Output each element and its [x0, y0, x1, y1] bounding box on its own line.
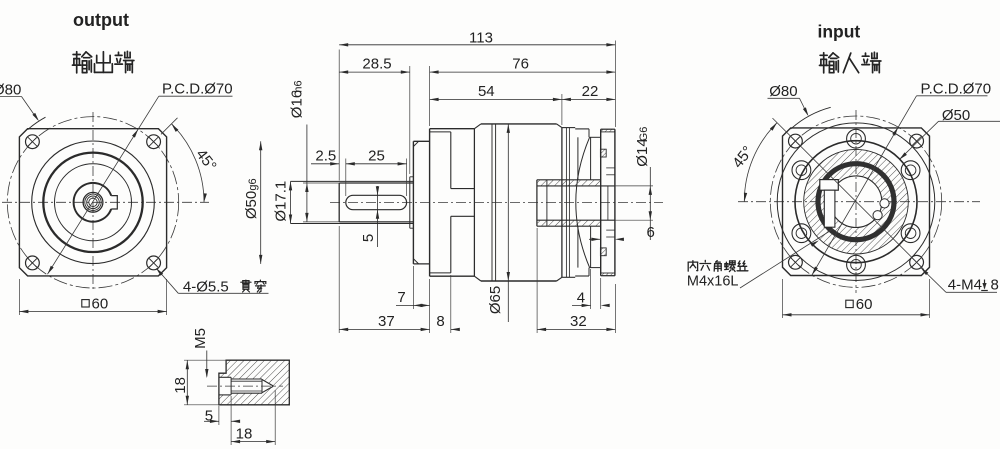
middle view dim dia50g6	[260, 141, 262, 264]
svg-text:60: 60	[92, 295, 109, 312]
svg-text:4-Ø5.5: 4-Ø5.5	[183, 278, 229, 295]
middle view clamp collar faces	[577, 137, 579, 180]
middle view dim 22	[562, 98, 616, 100]
svg-text:M4x16L: M4x16L	[687, 273, 739, 289]
left view 45 deg construction ray	[161, 118, 178, 135]
svg-text:P.C.D.Ø70: P.C.D.Ø70	[921, 80, 992, 97]
middle view clamp screws in section	[600, 149, 606, 157]
middle view shaft dia17.1 key surface lines	[291, 180, 414, 182]
middle view rear rim silhouette	[575, 128, 589, 130]
svg-text:25: 25	[368, 148, 385, 165]
middle view round flange projection curve	[576, 137, 590, 267]
middle view dim 5 keyway width	[377, 186, 379, 247]
middle view hollow input shaft with dia14 bore (sectioned)	[536, 180, 538, 226]
svg-text:7: 7	[397, 289, 405, 306]
svg-text:Ø50: Ø50	[243, 191, 260, 219]
svg-text:6: 6	[647, 224, 655, 241]
svg-text:Ø16: Ø16	[289, 90, 306, 118]
left view P.C.D. leader line with arrows	[48, 96, 159, 274]
detail view dim 5 counterbore depth	[218, 406, 220, 425]
svg-text:5: 5	[360, 234, 377, 242]
svg-text:4-M4: 4-M4	[948, 276, 982, 293]
svg-text:8: 8	[991, 276, 999, 293]
left view body circle dia 80 arc fragment	[28, 117, 46, 129]
middle view dim dia16h6	[306, 125, 308, 222]
right view horizontal centerline	[738, 201, 980, 203]
middle view dim 37	[338, 226, 340, 333]
right view title: Chinese 输入端	[820, 53, 839, 73]
middle view dim 6 plate thickness	[589, 238, 600, 240]
detail view M5 hole white cut	[219, 377, 231, 395]
left view recess circle (thick)	[43, 153, 142, 252]
middle view ring gear barrel dia 65	[474, 124, 481, 129]
svg-text:28.5: 28.5	[362, 56, 391, 73]
middle view carrier recess step	[409, 177, 411, 228]
middle view dim 76	[429, 66, 431, 126]
svg-text:Ø80: Ø80	[769, 83, 797, 100]
middle view square flange plate (8mm)	[429, 129, 431, 277]
left view 45 deg dimension arc	[172, 124, 205, 203]
left view horizontal centerline	[2, 201, 209, 203]
right view clamp outer circle	[804, 149, 909, 254]
detail view counterbore lines	[219, 376, 231, 378]
right view two small holes	[880, 199, 889, 208]
left view vertical centerline	[92, 112, 94, 291]
svg-text:76: 76	[512, 56, 529, 73]
left view square flange with chamfered corners	[19, 129, 166, 276]
svg-text:h6: h6	[293, 80, 305, 92]
svg-text:Ø17.1: Ø17.1	[272, 181, 289, 222]
right view P.C.D. bolt circle (dash-dot)	[770, 116, 941, 287]
detail view hatched block	[219, 360, 289, 405]
right view serrated clamp ring (thick)	[818, 164, 894, 240]
middle view dim 2.5 and 25 keyway	[345, 159, 347, 197]
right view 4 corner bolt holes with cross marks	[789, 134, 803, 148]
middle view dim 32	[536, 228, 538, 333]
right view clamp hatched annulus	[804, 149, 909, 254]
right view barrel circle dia 65	[777, 123, 935, 281]
middle view dim 28.5	[409, 66, 411, 174]
detail view drill cone tip	[262, 380, 274, 387]
svg-text:M5: M5	[192, 328, 209, 349]
svg-text:Ø14: Ø14	[634, 138, 651, 166]
middle view dim 4	[590, 269, 592, 309]
detail view dim 18 depth	[230, 425, 232, 445]
right view clamp screw M4 head and body	[820, 180, 839, 191]
left view P.C.D. bolt circle (dash-dot)	[7, 117, 178, 288]
right view body dia 80 arc fragment	[791, 107, 831, 129]
left view inner circle dia 31	[55, 164, 132, 241]
svg-text:4: 4	[577, 290, 585, 307]
svg-text:P.C.D.Ø70: P.C.D.Ø70	[162, 81, 233, 98]
svg-text:37: 37	[378, 313, 395, 330]
middle view dim 7	[412, 266, 414, 309]
svg-text:G6: G6	[638, 127, 650, 142]
left view boss circle dia 50g6	[32, 141, 155, 264]
right view P.C.D. leader with arrows	[812, 96, 917, 275]
svg-text:output: output	[73, 10, 129, 30]
svg-text:input: input	[818, 22, 861, 42]
svg-text:18: 18	[172, 377, 189, 394]
right view 6 flange holes	[901, 224, 920, 243]
right view vertical centerline	[855, 110, 857, 293]
middle view dim dia65	[507, 124, 509, 322]
svg-text:8: 8	[436, 313, 444, 330]
middle view dim dia17.1	[290, 181, 292, 223]
left view title: Chinese 输出端	[73, 52, 92, 73]
svg-text:g6: g6	[247, 178, 259, 190]
middle view output shaft dia16 outline	[338, 183, 340, 222]
detail view centerline	[207, 385, 283, 387]
svg-text:32: 32	[570, 313, 587, 330]
middle view dim 54	[561, 94, 563, 125]
left view keyway tab	[111, 196, 117, 209]
left view output shaft dia16 circle with keyway	[74, 183, 112, 222]
middle view barrel rear face	[561, 128, 563, 278]
right view label hex socket screws M4x16L with leader	[688, 261, 697, 271]
svg-text:113: 113	[469, 30, 493, 47]
right view dia50 circle	[795, 141, 917, 263]
middle view keyway slot capsule	[346, 195, 407, 209]
detail view thread major and minor lines	[231, 378, 262, 380]
svg-text:Ø65: Ø65	[487, 286, 504, 314]
middle view motor adapter plate (6mm)	[600, 129, 602, 276]
svg-text:5: 5	[205, 407, 213, 424]
svg-text:60: 60	[856, 296, 873, 313]
left view 4 corner bolt holes dia 5.5 with cross marks	[26, 135, 40, 149]
right view square-60 dimension	[782, 279, 784, 318]
middle view dia16 extension lines	[303, 182, 339, 184]
svg-text:2.5: 2.5	[315, 148, 336, 165]
detail view block outline	[219, 360, 289, 405]
left view hub circles	[83, 192, 103, 212]
middle view input shaft wall hatching	[537, 180, 601, 186]
svg-text:Ø80: Ø80	[0, 82, 21, 99]
middle view dim 8 flange thickness	[450, 275, 452, 333]
middle view dim 113 overall	[338, 50, 340, 181]
right view 45 deg dimension arc	[744, 123, 777, 202]
right view 45 deg construction diagonal	[773, 118, 925, 270]
middle view horizontal centerline	[330, 201, 663, 203]
right view clamp bore circle	[830, 176, 882, 228]
detail view dim 18 height	[184, 359, 227, 361]
left view square-60 dimension	[18, 279, 20, 315]
svg-text:54: 54	[478, 83, 495, 100]
svg-text:22: 22	[582, 83, 599, 100]
right view square flange with chamfered corners	[783, 128, 930, 276]
svg-text:18: 18	[236, 425, 253, 442]
middle view dim dia14G6	[649, 167, 651, 240]
middle view carrier front face dia50	[412, 141, 414, 264]
